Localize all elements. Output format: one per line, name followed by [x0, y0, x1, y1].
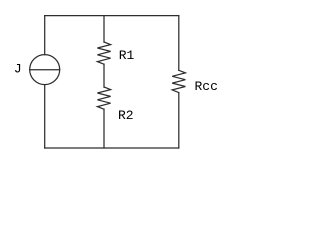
wire top rail [45, 15, 179, 17]
wire right branch upper [178, 16, 180, 71]
wire left branch lower [44, 85, 46, 148]
svg-text:J: J [14, 61, 22, 76]
svg-text:R1: R1 [119, 48, 135, 63]
wire right branch lower [178, 93, 180, 148]
wire middle branch mid [103, 64, 105, 87]
resistor Rcc [172, 70, 185, 92]
resistor R1 [97, 42, 110, 64]
svg-text:Rcc: Rcc [195, 79, 218, 94]
svg-text:R2: R2 [118, 108, 134, 123]
wire middle branch lower [103, 109, 105, 148]
current source J [30, 55, 60, 85]
wire bottom rail [45, 147, 179, 149]
wire middle branch upper [103, 16, 105, 42]
resistor R2 [97, 87, 110, 109]
wire left branch upper [44, 16, 46, 55]
